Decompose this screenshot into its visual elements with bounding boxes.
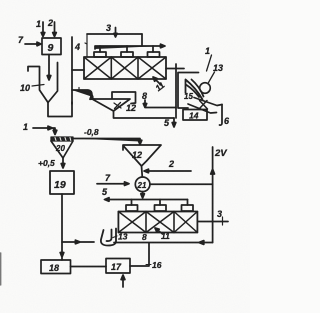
stream 7 arrow into mill <box>97 182 129 186</box>
manifold drop to foot 2 <box>126 46 128 52</box>
foot 1 granulator <box>126 205 138 211</box>
foot 3 on mixer <box>148 52 160 57</box>
box 18 <box>41 260 71 274</box>
manifold drop foot2 <box>159 200 161 206</box>
feed arrow 1 (left, into screen 20) <box>33 126 57 134</box>
feed arrow 1 into box 9 <box>41 22 45 37</box>
feed arrow 2 into box 9 <box>53 22 57 37</box>
wire riser branch to cyclone 12a with hook arrow <box>72 88 94 100</box>
foot 3 granulator <box>182 205 194 211</box>
line 3 feed (top horizontal) <box>87 33 142 35</box>
output 5 arrow (manifold left end) <box>105 198 188 202</box>
X mark on cyclone 12a <box>114 103 121 109</box>
blower circle 13 <box>200 83 211 94</box>
paper texture <box>0 0 1 1</box>
feed manifold over mixer <box>95 44 165 49</box>
label 13 (boot) with leader <box>113 232 128 242</box>
manifold drop to foot 3 <box>152 46 154 52</box>
foot 1 on mixer <box>94 52 106 57</box>
label 16 with tick <box>146 260 162 270</box>
label 11 (top mixer) with leader arrow <box>153 77 167 93</box>
output 5 down arrow <box>172 118 176 127</box>
label 3 with down tick <box>106 23 117 37</box>
cyclone 12a outlet to line 5 <box>114 111 175 118</box>
mill 21 (circle) <box>135 177 150 192</box>
up arrow into box17 bottom <box>121 275 125 287</box>
wire top line right drop to manifold <box>141 34 143 46</box>
riser line 4 (vertical) <box>71 37 73 104</box>
wire mixer right to bus <box>166 68 184 70</box>
branch from box19 column to boot with arrow <box>62 240 94 244</box>
stream 8 stub into bus line <box>143 100 176 108</box>
box 14 <box>183 110 207 121</box>
recycle line (bus bottom to boot) <box>114 241 213 245</box>
scan streak left edge <box>0 253 2 285</box>
granulator 11 (bottom apparatus) <box>118 212 197 233</box>
foot 2 on mixer <box>121 52 133 57</box>
mixer 11 (top apparatus) <box>84 57 166 79</box>
stem cyclone 12b to mill 21 <box>141 166 144 177</box>
output 3 line (crosses bus) <box>197 221 228 223</box>
wire top line left drop to mixer <box>85 34 87 57</box>
foot 2 granulator <box>155 205 167 211</box>
manifold drop to foot 1 <box>99 46 101 52</box>
wire box19 down to box18 <box>60 194 64 260</box>
wire mill to right bus <box>150 183 213 185</box>
feed boot (elevator shoe) <box>101 229 116 246</box>
wire mill down to granulator manifold <box>141 192 145 198</box>
cyclone 12a (flat funnel under mixer) <box>93 99 130 111</box>
right bus vertical <box>175 64 177 118</box>
fan wedge 15 <box>186 80 204 100</box>
bypass bridge over cyclone 12a <box>112 92 136 104</box>
hopper 10 <box>40 63 58 103</box>
riser box17 to recycle line <box>130 243 149 266</box>
label 11 (bottom) with leader arrow <box>155 228 170 241</box>
manifold drop foot1 <box>131 200 133 206</box>
box 17 <box>106 259 130 274</box>
stream 2 arrow into cyclone stem <box>144 169 191 173</box>
line -0,8 (screen overflow to cyclone 12b) <box>73 139 142 145</box>
label 3 (right) with tick <box>217 209 223 225</box>
manifold drop foot3 <box>187 200 189 206</box>
right bus vertical (2V riser) <box>211 147 215 243</box>
cyclone 12b <box>123 145 161 166</box>
wire screen20 to box19 arrow <box>61 158 65 168</box>
screen 20 (hatched funnel) <box>51 137 73 158</box>
box 9 (feeder) <box>42 38 61 55</box>
wire box9 to hopper with arrow <box>47 55 51 81</box>
vent stub at hopper top <box>28 67 40 72</box>
fan housing box (right assembly) <box>178 73 199 109</box>
box 19 <box>50 171 74 194</box>
wire box18 to box17 <box>71 266 107 268</box>
feed arrow 7 into box 9 <box>25 42 41 46</box>
label 10 with leader <box>20 83 44 93</box>
hopper outlet U-duct <box>48 102 72 117</box>
label 1 with leader (top right) <box>205 46 212 71</box>
label 13 with leader (to blower) <box>209 63 224 83</box>
wire riser to mixer left side <box>72 69 84 71</box>
outlet line 6 <box>220 105 223 126</box>
discharge chute with X brace <box>188 98 222 114</box>
